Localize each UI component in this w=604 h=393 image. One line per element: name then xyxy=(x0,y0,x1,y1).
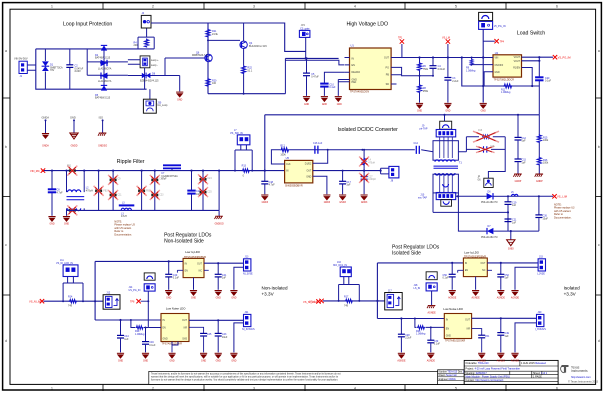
svg-text:C14: C14 xyxy=(414,142,419,145)
crossed capacitor pair column A xyxy=(108,175,122,200)
wire GND pin xyxy=(313,176,327,194)
svg-text:pri-TAP: pri-TAP xyxy=(420,128,428,131)
svg-text:TP4: TP4 xyxy=(500,40,505,43)
ground under C40 xyxy=(165,290,172,299)
ground under GND pin xyxy=(335,80,342,106)
svg-text:GND: GND xyxy=(191,297,196,299)
svg-text:JP: JP xyxy=(478,177,481,179)
wire bias top rail xyxy=(151,23,306,51)
crossed snubber resistor R18 (DNP) xyxy=(473,130,499,142)
crossed capacitor pair column B xyxy=(150,175,164,200)
svg-text:1uF: 1uF xyxy=(512,221,517,224)
svg-text:b: b xyxy=(5,145,7,149)
svg-text:CLK: CLK xyxy=(286,164,291,166)
svg-text:10uF: 10uF xyxy=(543,217,549,220)
label Isolated +3.3V xyxy=(564,286,581,297)
dual zener D8 xyxy=(128,72,180,82)
svg-text:OUT: OUT xyxy=(481,263,486,265)
diode D4 xyxy=(98,70,112,83)
svg-text:OUT: OUT xyxy=(197,263,202,265)
svg-text:GND: GND xyxy=(481,111,486,113)
svg-text:47uH: 47uH xyxy=(121,215,127,218)
svg-text:ISO: ISO xyxy=(99,116,103,120)
svg-text:IN: IN xyxy=(185,263,188,265)
svg-text:EN: EN xyxy=(185,270,189,272)
svg-text:1.00Meg: 1.00Meg xyxy=(416,333,426,336)
ground under C52 xyxy=(497,290,506,299)
wire GND pin xyxy=(484,72,493,86)
svg-text:R18: R18 xyxy=(478,130,483,132)
wire J18 to ground xyxy=(431,291,433,305)
net label VS_NI_IM xyxy=(29,299,44,304)
capacitor C41 xyxy=(215,263,227,290)
svg-text:Loop Input Protection: Loop Input Protection xyxy=(63,22,112,28)
svg-text:0.1uF: 0.1uF xyxy=(173,277,180,280)
svg-text:Loop -: Loop - xyxy=(151,64,158,67)
connector J14 US_PG_IN xyxy=(129,284,156,292)
ground chassis right xyxy=(215,210,224,225)
wire top rail non-iso xyxy=(95,260,183,262)
svg-text:EN: EN xyxy=(446,328,450,330)
svg-text:EN: EN xyxy=(465,270,469,272)
node dots J7 legs xyxy=(234,170,266,172)
svg-text:0.1uF: 0.1uF xyxy=(545,80,552,83)
jumper box above J14 xyxy=(144,273,155,280)
svg-text:PG: PG xyxy=(386,66,390,69)
ground under C30 xyxy=(427,353,436,363)
capacitor C3 xyxy=(444,58,459,103)
capacitor C14 series plates xyxy=(414,142,420,154)
wire U4 EN xyxy=(148,327,161,329)
header J9 pri-TAP xyxy=(420,125,456,137)
ground under L4 xyxy=(361,195,369,205)
svg-text:MMBTA06-7-F: MMBTA06-7-F xyxy=(192,54,208,57)
svg-text:1uF: 1uF xyxy=(512,204,517,207)
svg-text:R12: R12 xyxy=(280,144,285,147)
svg-text:J20: J20 xyxy=(538,311,543,314)
ground under C18 xyxy=(261,195,269,205)
svg-text:4: 4 xyxy=(354,5,356,9)
svg-text:Low Iq LDO: Low Iq LDO xyxy=(185,250,201,254)
wire D1 pin to feedback xyxy=(313,150,328,164)
svg-text:ON/OFF: ON/OFF xyxy=(495,65,504,67)
wire loop-protection outer rails xyxy=(36,49,154,89)
IC U7 low noise LDO iso xyxy=(444,314,471,343)
title block small rows (orderable/number) xyxy=(438,370,467,385)
resistor R12 xyxy=(280,144,289,156)
svg-text:6: 6 xyxy=(556,387,558,391)
wire VOUT xyxy=(522,57,554,61)
svg-text:470uH: 470uH xyxy=(368,162,375,164)
svg-text:GND: GND xyxy=(322,104,327,106)
capacitor C46 xyxy=(142,327,156,353)
svg-text:1uF: 1uF xyxy=(522,140,527,143)
svg-text:0.1uF: 0.1uF xyxy=(329,86,336,89)
wire VIN input xyxy=(462,57,493,59)
svg-text:VOUT: VOUT xyxy=(514,61,521,63)
svg-text:J15: J15 xyxy=(539,256,544,259)
wire J5 vertical xyxy=(482,29,484,102)
ground under C41 xyxy=(215,290,222,299)
svg-text:J5_PG_IN: J5_PG_IN xyxy=(494,25,506,28)
svg-text:GND: GND xyxy=(118,360,123,362)
svg-text:GND: GND xyxy=(304,104,309,106)
svg-text:Non-Isolated: Non-Isolated xyxy=(262,286,288,291)
capacitor C8 xyxy=(48,171,63,216)
wire U6 out rail xyxy=(487,262,538,264)
svg-text:1uF: 1uF xyxy=(522,161,527,164)
svg-text:Orderable: TIDA-010: Orderable: TIDA-010 xyxy=(465,362,489,365)
svg-text:GND: GND xyxy=(166,297,171,299)
svg-text:U5: U5 xyxy=(286,156,290,160)
terminal block J17 xyxy=(385,289,403,310)
svg-text:2.2uF: 2.2uF xyxy=(405,337,412,340)
ground under C28 xyxy=(397,353,406,363)
svg-text:3: 3 xyxy=(253,5,255,9)
svg-text:OUT: OUT xyxy=(306,171,311,173)
resistor R11 xyxy=(501,84,512,94)
ground chassis under R16 xyxy=(535,174,543,183)
ground under U4 xyxy=(168,353,175,363)
svg-text:US_PG_IN: US_PG_IN xyxy=(129,289,141,292)
svg-text:GND: GND xyxy=(445,111,450,113)
svg-text:GND: GND xyxy=(163,339,168,341)
svg-text:sec-TAP: sec-TAP xyxy=(418,196,427,199)
wire U7 out rail xyxy=(472,317,537,319)
svg-text:GND: GND xyxy=(64,224,69,226)
svg-text:0.1uF: 0.1uF xyxy=(149,344,156,347)
wire EN/QOD xyxy=(522,68,533,87)
resistor R8 xyxy=(418,76,429,103)
svg-text:FB2: FB2 xyxy=(103,191,108,193)
svg-text:IN: IN xyxy=(286,171,289,173)
ground symbol 1 xyxy=(42,133,49,148)
svg-text:J21: J21 xyxy=(245,311,250,314)
section title Post Regulator LDOs Non-Isolated xyxy=(164,233,212,245)
ground under J5 rail xyxy=(480,103,487,113)
svg-text:255k: 255k xyxy=(423,90,429,93)
capacitor C40 xyxy=(165,260,179,289)
svg-text:GNDA: GNDA xyxy=(42,145,49,148)
title block main box xyxy=(464,360,558,384)
svg-text:BAT46WJ,115: BAT46WJ,115 xyxy=(95,57,111,60)
svg-text:Contact: http://www.ti.com/sup: Contact: http://www.ti.com/support xyxy=(465,379,503,382)
test point TP4 xyxy=(483,39,504,43)
capacitor C18 xyxy=(261,171,275,195)
svg-text:C24: C24 xyxy=(207,178,212,180)
test point TP1 xyxy=(398,37,404,58)
diode D6 xyxy=(481,190,508,204)
ground chassis under J18 xyxy=(427,305,436,314)
svg-text:PB: PB xyxy=(386,74,390,77)
svg-text:Instruments: Instruments xyxy=(571,369,588,373)
wire EN/CLK feedback loop xyxy=(271,150,362,164)
svg-text:GND: GND xyxy=(495,72,500,74)
svg-text:SN6505BDBVR: SN6505BDBVR xyxy=(285,184,303,187)
svg-text:PMLL4148L/YM: PMLL4148L/YM xyxy=(481,237,498,239)
capacitor C43 xyxy=(215,320,228,352)
svg-text:2.2uF: 2.2uF xyxy=(452,80,459,83)
svg-text:VS_I_IM: VS_I_IM xyxy=(309,299,319,303)
svg-text:0.01uF: 0.01uF xyxy=(438,68,446,71)
svg-text:2: 2 xyxy=(152,387,154,391)
capacitor C4 xyxy=(430,58,446,77)
svg-text:1uF: 1uF xyxy=(505,277,510,280)
capacitor C26 xyxy=(535,196,548,231)
jumper JP G6 xyxy=(478,177,494,188)
ground under U5 xyxy=(323,195,331,205)
capacitor C28 xyxy=(398,317,412,352)
svg-text:GND: GND xyxy=(337,104,342,106)
svg-text:R1/EN: R1/EN xyxy=(513,68,520,70)
svg-text:VS_I_IM: VS_I_IM xyxy=(557,195,567,199)
wire Q4 base xyxy=(208,39,240,41)
svg-text:1.00Meg: 1.00Meg xyxy=(466,69,476,72)
ground under J15 xyxy=(511,290,520,299)
wire U6 gnd xyxy=(475,277,477,290)
svg-text:warrant that this design will: warrant that this design will meet the s… xyxy=(151,376,339,379)
svg-text:GND: GND xyxy=(70,116,76,120)
net label VS_PG_IM xyxy=(553,55,571,60)
wire main non-iso input xyxy=(44,300,104,302)
wire inner rect xyxy=(87,49,128,75)
svg-text:GND: GND xyxy=(231,297,236,299)
svg-text:BAT46WJ,115: BAT46WJ,115 xyxy=(95,97,111,100)
power flag PGND xyxy=(42,116,50,133)
svg-text:CA_Loop: CA_Loop xyxy=(157,104,168,107)
capacitor C21 xyxy=(505,211,518,224)
wire lower rectifier rail xyxy=(458,212,539,231)
svg-text:licensors do not warrant that: licensors do not warrant that the design… xyxy=(151,379,338,382)
ground under C5 xyxy=(303,96,310,106)
wire U4 gnd pins xyxy=(172,342,178,353)
resistor R17 series xyxy=(344,295,353,307)
test point VS_LM xyxy=(442,37,450,58)
ground under C10 xyxy=(321,96,328,106)
ground symbol 2 (open) xyxy=(70,133,78,148)
jumper box below header J10 xyxy=(441,200,452,207)
svg-text:Number TIDA-010 Des 1.0: Number TIDA-010 Des 1.0 xyxy=(439,371,467,374)
ferrite bead L5 xyxy=(511,192,518,197)
resistor R14 series xyxy=(68,296,77,308)
svg-text:Texas Instruments, and/or its: Texas Instruments, and/or its licensors … xyxy=(151,373,341,376)
TVS diode D1 xyxy=(42,49,63,89)
svg-text:GND: GND xyxy=(169,360,174,362)
note text right xyxy=(554,204,575,220)
wire output to net xyxy=(508,195,553,197)
wire feedback to transformer xyxy=(362,150,433,152)
ground under U3 xyxy=(190,290,197,299)
svg-text:4: 4 xyxy=(354,387,356,391)
net label VS_NI_3V3 xyxy=(303,299,321,304)
svg-text:LL4148/D7A: LL4148/D7A xyxy=(98,67,112,70)
net label VIN_MC_IM xyxy=(30,168,45,173)
diode D5 xyxy=(95,83,111,100)
connector J7 VS_SW_IN xyxy=(230,129,250,145)
wire header J10 to output xyxy=(456,195,487,197)
wire iso feed vertical xyxy=(377,263,444,319)
svg-text:U1: U1 xyxy=(351,44,355,48)
node on rail xyxy=(517,114,519,116)
jumper box above header J9 xyxy=(440,121,452,129)
svg-text:IN: IN xyxy=(163,320,166,322)
wire U3 out rail xyxy=(204,262,244,264)
resistor R22 xyxy=(242,65,253,95)
wire main iso input xyxy=(323,300,385,302)
svg-text:PAD: PAD xyxy=(352,81,357,84)
ground under C46 xyxy=(142,353,149,363)
wire power rail to converter xyxy=(265,115,540,172)
svg-text:AGNDE: AGNDE xyxy=(448,296,457,299)
capacitor C17 xyxy=(339,170,351,195)
svg-text:Project: 4-20 mA Loop Powered: Project: 4-20 mA Loop Powered Field Tran… xyxy=(465,368,520,371)
wire OUT rail xyxy=(313,170,381,172)
wire JP2 to main xyxy=(305,37,307,58)
svg-text:GND: GND xyxy=(306,176,311,178)
svg-text:749: 749 xyxy=(68,305,73,308)
svg-text:AGNDE: AGNDE xyxy=(478,359,487,362)
svg-text:AGNDE: AGNDE xyxy=(428,311,437,314)
svg-text:1.00Meg: 1.00Meg xyxy=(501,91,511,94)
ground chassis under C15 xyxy=(513,174,521,183)
node dots on OUT rail xyxy=(418,56,484,58)
ground under R8 xyxy=(416,103,423,113)
wire J21 pin2 to ground xyxy=(234,323,244,353)
svg-text:Isolated Side: Isolated Side xyxy=(392,251,421,257)
svg-text:1: 1 xyxy=(51,5,53,9)
wire secondary loop xyxy=(433,193,508,213)
svg-text:GND: GND xyxy=(417,111,422,113)
capacitor C5 xyxy=(303,57,319,96)
op IC U1 TPS7A4001 xyxy=(338,44,396,94)
connector loop terminal xyxy=(140,56,159,68)
svg-text:NR: NR xyxy=(467,328,471,330)
connector JP2 C3_gate xyxy=(299,24,310,38)
svg-text:+3.3V: +3.3V xyxy=(564,292,577,297)
wire J11 bracket xyxy=(63,277,83,302)
ground under J13 xyxy=(230,290,237,299)
wire OUT rail xyxy=(391,57,493,59)
section title Post Regulator LDOs Isolated xyxy=(392,245,440,257)
svg-text:GND: GND xyxy=(216,360,221,362)
svg-text:0.1uF: 0.1uF xyxy=(443,277,450,280)
svg-text:1uF: 1uF xyxy=(505,335,510,338)
svg-text:24.9k: 24.9k xyxy=(212,33,219,36)
ground under C17 xyxy=(339,195,347,205)
svg-text:TPS7A9101DSKR: TPS7A9101DSKR xyxy=(445,340,466,343)
capacitor C52 xyxy=(497,263,509,290)
svg-text:c: c xyxy=(598,243,600,247)
svg-text:GND3: GND3 xyxy=(339,202,346,204)
svg-text:Low Noise LDO: Low Noise LDO xyxy=(443,307,463,311)
resistor R21 xyxy=(206,29,219,38)
svg-text:© Texas Instruments 2015: © Texas Instruments 2015 xyxy=(568,380,599,384)
connector J15 I_3V3E xyxy=(537,256,546,276)
crossed bead FB3 (DNP) xyxy=(137,186,151,196)
capacitor C44 xyxy=(117,319,129,353)
capacitor C13 xyxy=(187,171,202,211)
svg-text:0.47uF: 0.47uF xyxy=(311,76,319,79)
svg-text:a: a xyxy=(598,49,600,53)
capacitor C7 series on main xyxy=(161,165,181,180)
svg-text:LS_IN: LS_IN xyxy=(414,287,421,290)
svg-text:AGNDE: AGNDE xyxy=(511,359,520,362)
ground under C51 xyxy=(478,353,487,363)
svg-text:TPS27082LDDCR: TPS27082LDDCR xyxy=(494,78,515,81)
connector J18 LS_IN xyxy=(414,283,438,291)
svg-text:GND: GND xyxy=(143,360,148,362)
net label VS_I_IM xyxy=(309,299,324,304)
resistor R19 xyxy=(130,319,148,336)
crossed capacitor pair column C xyxy=(198,174,212,197)
svg-text:GNDP: GNDP xyxy=(515,181,522,183)
header J10 sec-TAP xyxy=(418,193,456,200)
svg-text:6: 6 xyxy=(556,5,558,9)
svg-text:GNDISO: GNDISO xyxy=(215,224,224,226)
ground under rectifier xyxy=(507,240,515,251)
disclaimer text box xyxy=(149,371,438,384)
svg-text:C16 1uF: C16 1uF xyxy=(313,142,323,145)
ground under C8 xyxy=(48,216,55,226)
svg-text:GND: GND xyxy=(49,224,54,226)
svg-text:TP1: TP1 xyxy=(398,37,403,40)
diode D3 xyxy=(98,58,112,71)
svg-text:CGA9N3X7S2A: CGA9N3X7S2A xyxy=(161,175,178,178)
wire J1 pins xyxy=(27,65,36,70)
wire bottom rail xyxy=(462,58,540,87)
svg-text:R14: R14 xyxy=(68,296,73,299)
svg-text:GND: GND xyxy=(446,336,451,338)
svg-text:VOUT: VOUT xyxy=(514,57,521,59)
wire J7 bracket xyxy=(235,145,252,171)
ground under J20 xyxy=(511,353,520,363)
svg-text:GNDP: GNDP xyxy=(536,181,543,183)
snubber loop wires xyxy=(458,137,505,179)
svg-text:Ripple Filter: Ripple Filter xyxy=(117,159,145,165)
svg-text:70V: 70V xyxy=(50,69,55,72)
svg-text:VIN 9V-36V: VIN 9V-36V xyxy=(14,57,28,61)
svg-text:1000pF: 1000pF xyxy=(368,179,376,181)
svg-text:1 PAGE: 1 PAGE xyxy=(533,375,542,378)
svg-text:SNS: SNS xyxy=(182,339,187,341)
svg-text:AGNDE: AGNDE xyxy=(497,359,506,362)
svg-text:GNDI: GNDI xyxy=(508,248,514,250)
svg-text:1.00Meg: 1.00Meg xyxy=(135,333,145,336)
svg-text:J17: J17 xyxy=(388,289,393,292)
wire ripple main rail xyxy=(44,170,265,172)
ground under C3 xyxy=(444,103,451,113)
svg-text:GND: GND xyxy=(231,360,236,362)
svg-text:Loop +: Loop + xyxy=(151,59,159,62)
svg-text:Low Noise LDO: Low Noise LDO xyxy=(166,307,186,311)
svg-text:4.7uF: 4.7uF xyxy=(269,184,276,187)
crossed capacitor C27 (DNP) xyxy=(359,173,377,183)
svg-text:J13: J13 xyxy=(245,256,250,259)
wire PG PB feedback xyxy=(397,67,434,75)
svg-text:1uF: 1uF xyxy=(124,338,129,341)
svg-text:NR: NR xyxy=(184,327,188,329)
svg-text:AGNDE: AGNDE xyxy=(472,296,481,299)
terminal block J12 xyxy=(103,292,120,310)
svg-text:+3.3V: +3.3V xyxy=(262,292,275,297)
svg-text:b: b xyxy=(598,145,600,149)
svg-text:Isolated: Isolated xyxy=(564,286,581,291)
svg-text:100k: 100k xyxy=(543,162,549,165)
capacitor C30 xyxy=(427,326,440,352)
connector J13 NI_3V3E xyxy=(243,256,253,276)
wire U4 out rail xyxy=(189,319,244,321)
wire U3 gnd xyxy=(193,278,195,290)
